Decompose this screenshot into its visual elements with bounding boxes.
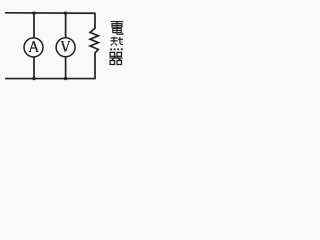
wire bottom horizontal: [5, 78, 95, 80]
ammeter A circle: [24, 38, 43, 57]
wire ammeter branch top: [33, 13, 35, 38]
wire ammeter branch bottom: [33, 56, 35, 78]
label 熱 bottom dots: [110, 48, 122, 50]
wire right vertical lower (heater to bottom): [94, 53, 96, 79]
wire right vertical upper (to heater): [94, 13, 96, 28]
wire voltmeter branch bottom: [65, 56, 67, 78]
voltmeter letter V: [61, 41, 70, 51]
label 器 (device) drawn glyph: [109, 52, 122, 64]
wire voltmeter branch top: [65, 13, 67, 38]
junction node bottom V: [64, 77, 67, 80]
label 電 (electric) drawn glyph: [111, 22, 123, 35]
junction node bottom A: [32, 77, 35, 80]
junction node top A: [32, 12, 35, 15]
ammeter letter A: [29, 41, 39, 51]
label 熱 (heat) drawn glyph: [111, 37, 124, 46]
voltmeter V circle: [56, 38, 75, 57]
wire top horizontal: [5, 12, 95, 14]
resistor (electric heater) zigzag: [90, 28, 98, 53]
junction node top V: [64, 12, 67, 15]
